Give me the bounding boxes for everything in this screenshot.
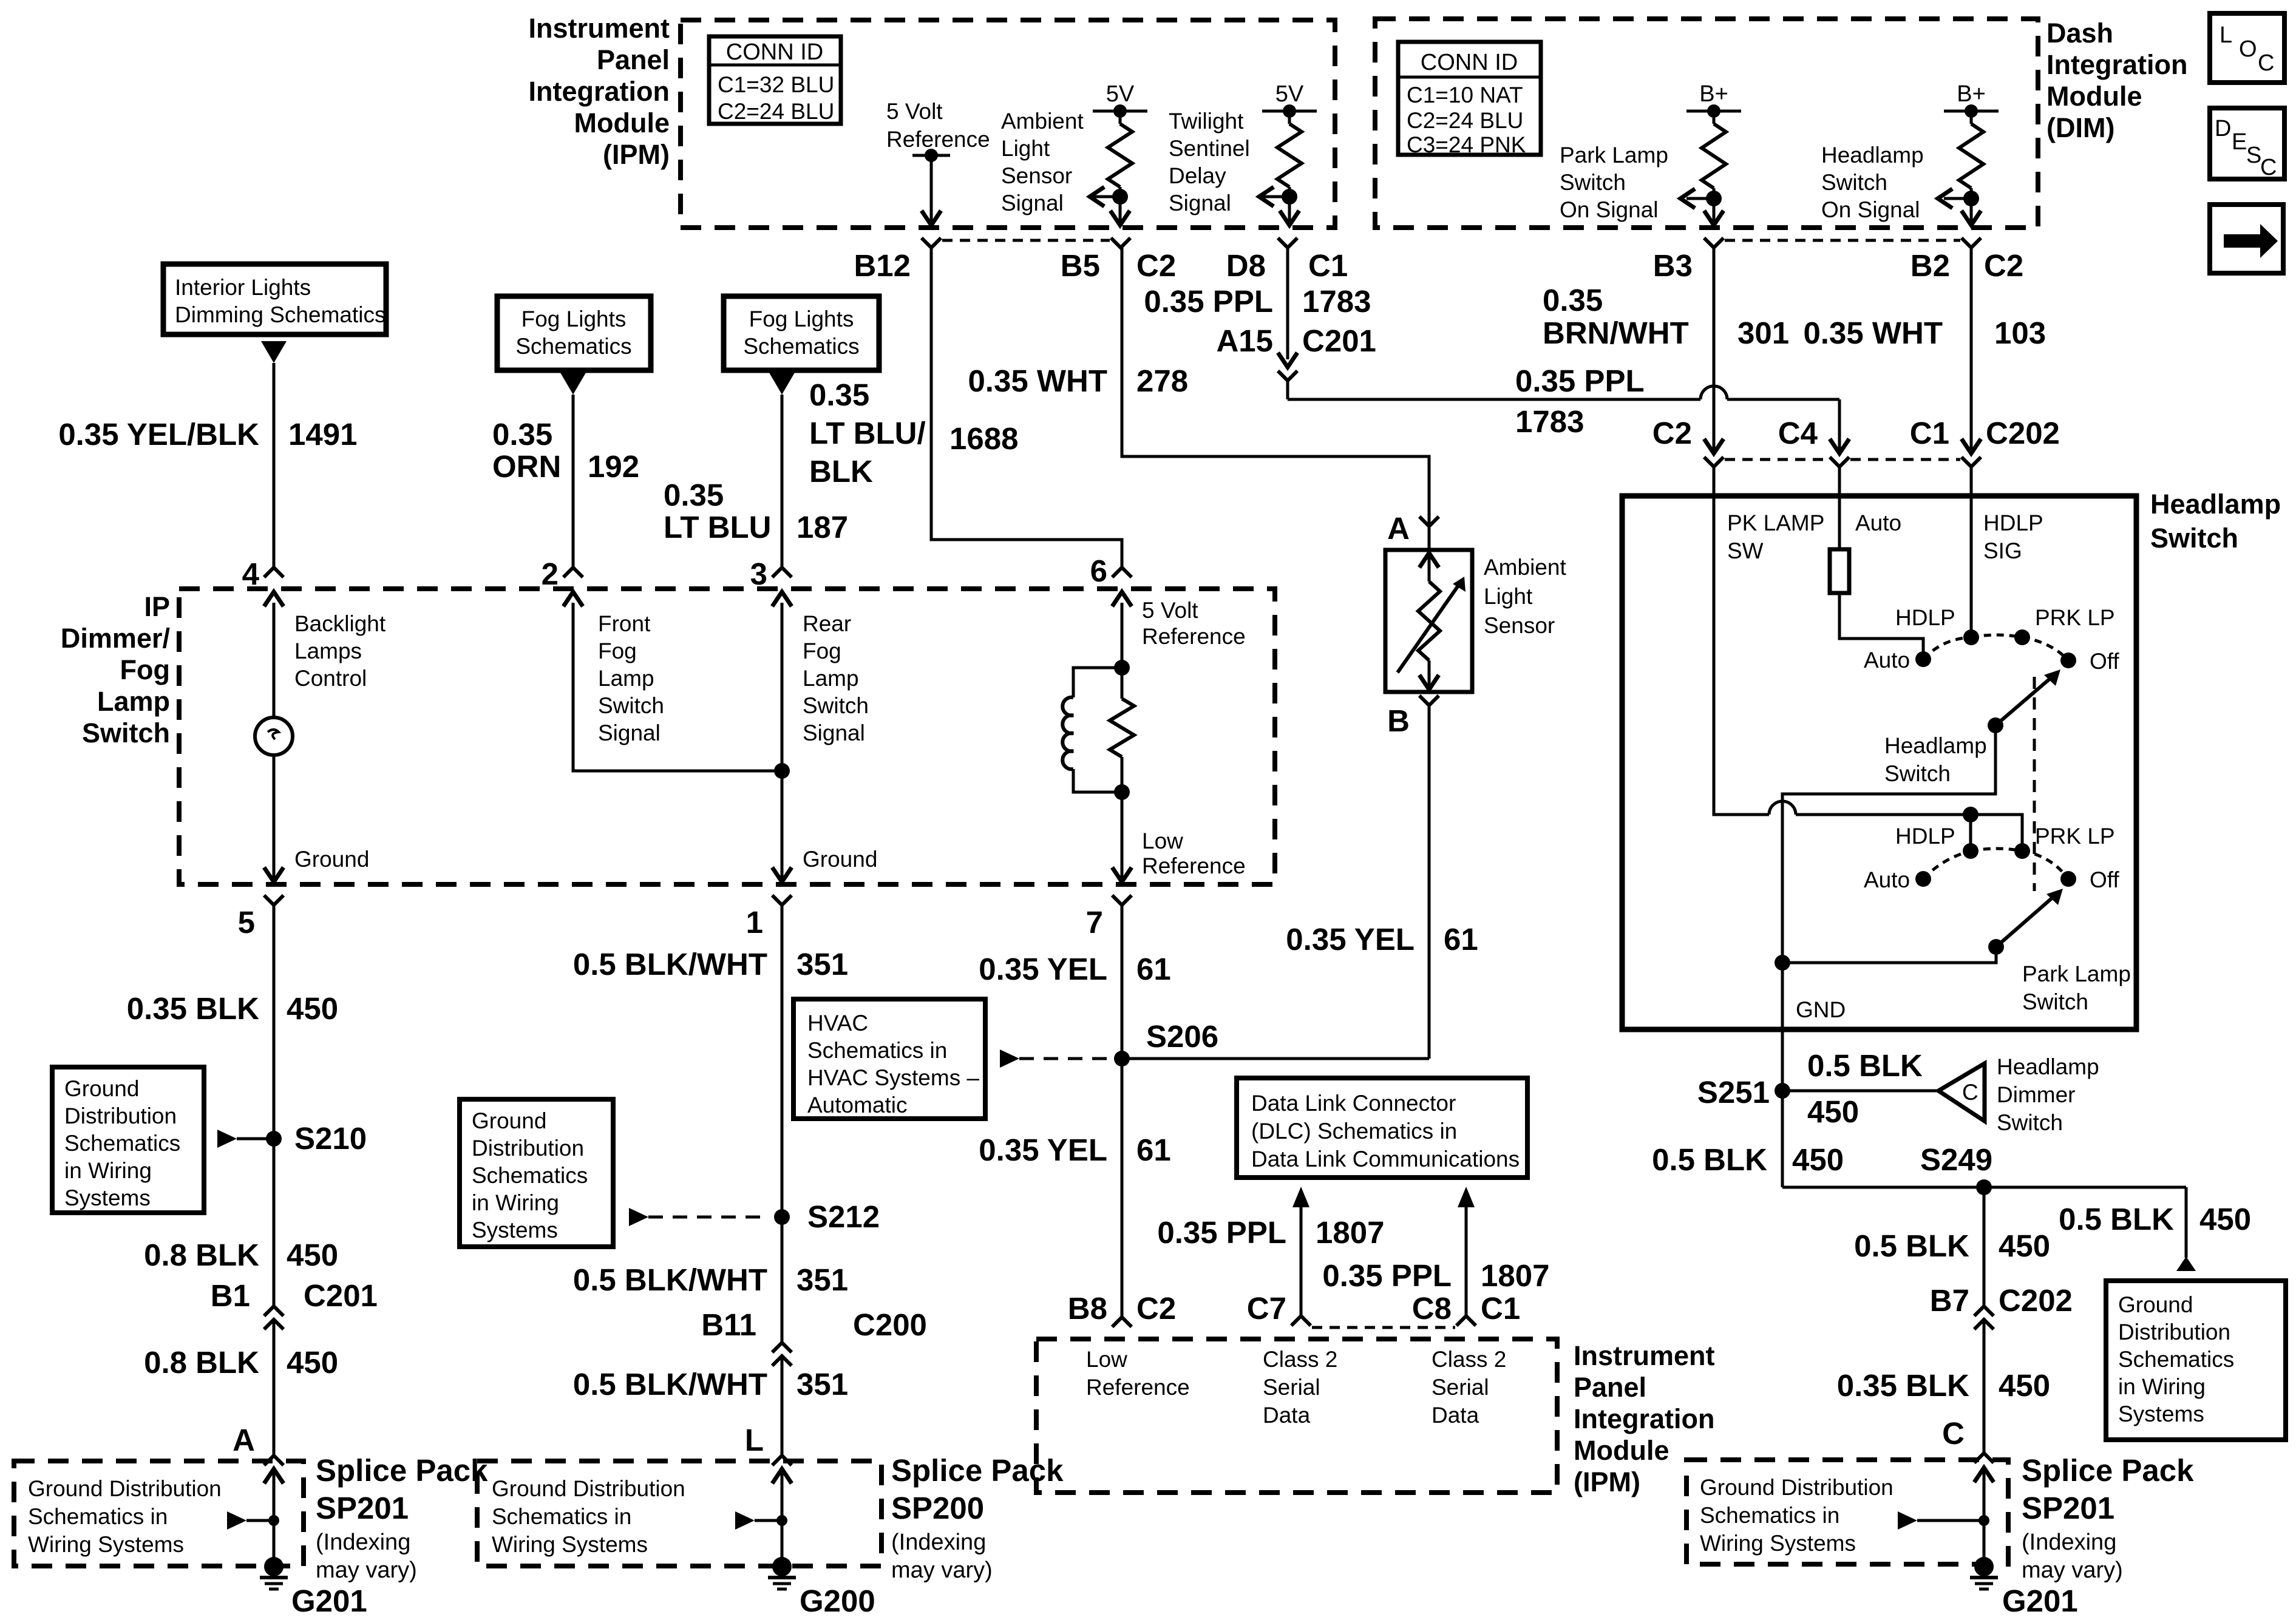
svg-text:1: 1 xyxy=(746,905,763,940)
svg-text:Integration: Integration xyxy=(2046,49,2188,80)
junction dot on strap xyxy=(1963,807,1978,822)
wire below C200 xyxy=(781,1356,784,1456)
reference box: Interior Lights Dimming Schematics xyxy=(163,264,386,334)
splice S210 xyxy=(266,1131,282,1147)
svg-text:HVAC: HVAC xyxy=(807,1011,868,1036)
svg-text:1491: 1491 xyxy=(288,417,357,452)
svg-text:0.35: 0.35 xyxy=(809,378,869,412)
svg-text:Lamps: Lamps xyxy=(294,639,362,663)
svg-text:G200: G200 xyxy=(800,1584,875,1617)
forward arrow box xyxy=(2210,205,2283,273)
svg-text:Distribution: Distribution xyxy=(472,1136,584,1161)
svg-text:HDLP: HDLP xyxy=(1983,510,2043,535)
wire: rear fog signal inside (pin 3 through) xyxy=(781,603,784,880)
svg-text:0.35 WHT: 0.35 WHT xyxy=(968,364,1107,398)
svg-text:Module: Module xyxy=(2046,81,2142,112)
svg-text:Schematics in: Schematics in xyxy=(28,1504,168,1529)
svg-text:0.35 PPL: 0.35 PPL xyxy=(1157,1215,1286,1250)
reference box: Ground Distribution Schematics in Wiring Systems (S210) xyxy=(52,1067,204,1213)
splice pack SP201 left dashed box xyxy=(14,1461,304,1566)
splice arrow inside SP201 left xyxy=(227,1511,246,1530)
svg-text:Data Link Connector: Data Link Connector xyxy=(1251,1091,1456,1116)
svg-text:Low: Low xyxy=(1142,829,1183,853)
connector chevrons below DIM (B3, B2) xyxy=(1704,238,1724,248)
svg-text:6: 6 xyxy=(1090,554,1107,588)
svg-text:Ground: Ground xyxy=(64,1076,139,1101)
svg-text:(DIM): (DIM) xyxy=(2046,112,2114,143)
svg-text:450: 450 xyxy=(287,1238,338,1272)
wire pin 6 internal xyxy=(1121,603,1124,699)
svg-text:Distribution: Distribution xyxy=(64,1103,177,1128)
svg-text:301: 301 xyxy=(1737,316,1789,350)
svg-text:0.35: 0.35 xyxy=(492,417,552,452)
wire: twilight delay 0.35 PPL 1783 upper (C1 to C201) xyxy=(1286,248,1289,359)
svg-text:Schematics: Schematics xyxy=(2118,1347,2234,1372)
svg-text:450: 450 xyxy=(1999,1368,2050,1403)
svg-text:0.5 BLK: 0.5 BLK xyxy=(1652,1142,1767,1177)
svg-text:5V: 5V xyxy=(1275,81,1304,107)
svg-text:HDLP: HDLP xyxy=(1895,824,1955,849)
inline connector C201 (A15) xyxy=(1278,353,1297,367)
svg-text:ORN: ORN xyxy=(492,449,561,484)
svg-text:0.8 BLK: 0.8 BLK xyxy=(144,1345,259,1380)
svg-text:Fog Lights: Fog Lights xyxy=(521,307,627,331)
svg-text:in Wiring: in Wiring xyxy=(64,1158,152,1183)
wire: ambient light sensor signal 0.35 WHT 278 (B5 to sensor A) xyxy=(1122,248,1429,526)
svg-text:Schematics in: Schematics in xyxy=(492,1504,631,1529)
svg-text:(DLC) Schematics in: (DLC) Schematics in xyxy=(1251,1119,1457,1144)
svg-text:192: 192 xyxy=(588,449,639,484)
svg-text:CONN ID: CONN ID xyxy=(726,39,823,65)
svg-text:C1=10 NAT: C1=10 NAT xyxy=(1407,83,1523,107)
svg-text:5 Volt: 5 Volt xyxy=(886,99,943,124)
svg-text:0.35: 0.35 xyxy=(1543,283,1603,317)
svg-text:450: 450 xyxy=(2199,1202,2251,1236)
svg-text:Schematics: Schematics xyxy=(743,334,859,359)
svg-text:Class 2: Class 2 xyxy=(1432,1347,1506,1372)
svg-text:0.35 PPL: 0.35 PPL xyxy=(1144,284,1273,319)
svg-text:On Signal: On Signal xyxy=(1821,197,1920,222)
connector mark C8 xyxy=(1456,1316,1476,1326)
svg-text:Wiring Systems: Wiring Systems xyxy=(28,1532,184,1557)
svg-text:LT BLU: LT BLU xyxy=(664,510,772,544)
svg-text:S206: S206 xyxy=(1146,1019,1218,1054)
svg-text:C2: C2 xyxy=(1652,416,1692,450)
svg-text:450: 450 xyxy=(287,1345,338,1380)
svg-text:G201: G201 xyxy=(2002,1584,2078,1617)
svg-text:0.35 PPL: 0.35 PPL xyxy=(1515,364,1645,398)
CONN ID table (IPM) xyxy=(709,36,841,124)
wire: 0.35 BLK 450 below C202 xyxy=(1983,1320,1986,1453)
svg-text:C201: C201 xyxy=(1302,324,1376,358)
svg-text:Sensor: Sensor xyxy=(1484,613,1555,638)
inline connector C200 (B11) xyxy=(772,1343,792,1352)
svg-text:Signal: Signal xyxy=(1001,191,1064,215)
wire: low reference 0.35 YEL 61 (pin 7 to B8) xyxy=(1121,905,1124,1317)
wire: 0.35 PPL 1783 jog to headlamp switch (hops over B3 wire) xyxy=(1286,381,1289,399)
splice pack SP200 dashed box xyxy=(477,1461,881,1566)
svg-text:in Wiring: in Wiring xyxy=(2118,1374,2206,1399)
svg-text:C2: C2 xyxy=(1984,248,2023,283)
svg-text:1807: 1807 xyxy=(1316,1215,1384,1250)
svg-text:C1: C1 xyxy=(1910,416,1949,450)
svg-text:351: 351 xyxy=(796,1263,848,1297)
inline connector C202 (B7) xyxy=(1974,1306,1994,1316)
svg-text:0.35 BLK: 0.35 BLK xyxy=(127,991,259,1026)
svg-text:Sensor: Sensor xyxy=(1001,163,1072,188)
svg-text:E: E xyxy=(2232,129,2247,155)
svg-text:S251: S251 xyxy=(1697,1075,1770,1110)
svg-text:A: A xyxy=(233,1423,255,1457)
svg-text:S210: S210 xyxy=(294,1121,367,1156)
svg-text:Ambient: Ambient xyxy=(1484,555,1566,580)
svg-text:Backlight: Backlight xyxy=(294,611,386,636)
svg-text:Integration: Integration xyxy=(529,76,670,107)
svg-text:0.5 BLK: 0.5 BLK xyxy=(2059,1202,2174,1236)
svg-text:Auto: Auto xyxy=(1864,867,1910,892)
exit arrow pin 7 xyxy=(1112,867,1132,882)
svg-text:Ground Distribution: Ground Distribution xyxy=(1700,1475,1894,1500)
entry arrow into SP201 left xyxy=(264,1469,284,1483)
svg-text:B7: B7 xyxy=(1930,1283,1969,1318)
svg-text:Reference: Reference xyxy=(1142,853,1246,878)
inductor: sensor load coil xyxy=(1073,668,1122,697)
wire: B7 ground 0.5 BLK 450 xyxy=(1983,1187,1986,1306)
svg-text:Ground: Ground xyxy=(803,847,877,872)
svg-text:Sentinel: Sentinel xyxy=(1169,136,1250,161)
svg-text:C1: C1 xyxy=(1481,1291,1520,1326)
svg-text:B11: B11 xyxy=(701,1307,756,1342)
wire: right branch to ground distribution xyxy=(2185,1187,2188,1258)
junction dot top of sensor load xyxy=(1114,660,1130,676)
wire: class 2 serial data 0.35 PPL 1807 (C7) xyxy=(1292,1187,1309,1207)
photoresistor: ambient light sensor element xyxy=(1419,553,1439,568)
svg-text:HDLP: HDLP xyxy=(1895,605,1955,630)
svg-text:B3: B3 xyxy=(1653,248,1693,283)
svg-text:Signal: Signal xyxy=(598,720,661,745)
exit arrow pin 5 xyxy=(264,867,284,882)
svg-text:Switch: Switch xyxy=(1997,1110,2063,1135)
svg-text:C4: C4 xyxy=(1778,416,1818,450)
dashed mechanical link xyxy=(2033,677,2036,891)
wire: park lamp switch signal 0.35 BRN/WHT 301 (B3 down) xyxy=(1713,248,1716,452)
svg-text:LT BLU/: LT BLU/ xyxy=(809,416,926,450)
svg-text:Ground: Ground xyxy=(294,847,369,872)
svg-text:0.35 YEL: 0.35 YEL xyxy=(979,952,1107,986)
svg-text:Module: Module xyxy=(574,107,670,138)
svg-text:61: 61 xyxy=(1444,922,1478,957)
svg-text:Systems: Systems xyxy=(472,1218,558,1242)
connector mark C7 xyxy=(1291,1316,1311,1326)
svg-text:(Indexing: (Indexing xyxy=(891,1530,986,1555)
wire: headlamp switch ground (GND out of box) xyxy=(1781,963,1784,1187)
svg-text:Auto: Auto xyxy=(1855,510,1901,535)
wire HDLP strap to PRK LP contact xyxy=(1971,815,2022,849)
svg-text:Splice Pack: Splice Pack xyxy=(316,1453,488,1488)
connector mark sensor B xyxy=(1419,696,1439,705)
svg-text:Instrument: Instrument xyxy=(1574,1340,1715,1371)
svg-text:278: 278 xyxy=(1136,364,1188,398)
resistor: sensor load xyxy=(1110,699,1134,757)
svg-text:Switch: Switch xyxy=(1560,170,1626,195)
svg-text:D8: D8 xyxy=(1226,248,1266,283)
svg-text:(IPM): (IPM) xyxy=(603,139,670,170)
svg-text:C: C xyxy=(2258,50,2274,76)
ground G201 right xyxy=(1974,1557,1994,1576)
svg-text:0.5 BLK/WHT: 0.5 BLK/WHT xyxy=(573,1367,767,1402)
svg-text:Headlamp: Headlamp xyxy=(1821,143,1924,168)
svg-text:Light: Light xyxy=(1484,584,1533,609)
svg-text:Fog: Fog xyxy=(120,654,170,685)
IPM module dashed box xyxy=(681,20,1335,228)
wire: class 2 serial data 0.35 PPL 1807 (C8) xyxy=(1458,1187,1475,1207)
dashed connector line C7-C8 xyxy=(1312,1326,1455,1329)
svg-text:B2: B2 xyxy=(1911,248,1950,283)
wire: S249 ground rail xyxy=(1782,1186,2186,1189)
svg-text:Ground Distribution: Ground Distribution xyxy=(28,1476,222,1501)
svg-text:Wiring Systems: Wiring Systems xyxy=(492,1532,648,1557)
svg-text:5V: 5V xyxy=(1106,81,1135,107)
wire S251 to dimmer switch xyxy=(1782,1090,1938,1093)
svg-text:C: C xyxy=(2260,155,2277,180)
svg-text:187: 187 xyxy=(796,510,848,544)
svg-text:103: 103 xyxy=(1994,316,2046,350)
svg-text:Integration: Integration xyxy=(1574,1403,1715,1434)
splice arrow inside SP200 xyxy=(735,1511,755,1530)
wire: HDLP SIG input (C1 into switch) xyxy=(1970,467,1973,635)
svg-text:S212: S212 xyxy=(807,1199,880,1234)
svg-text:Dimmer: Dimmer xyxy=(1997,1082,2075,1107)
svg-text:1807: 1807 xyxy=(1481,1258,1549,1293)
svg-text:C3=24 PNK: C3=24 PNK xyxy=(1407,132,1526,157)
svg-text:Delay: Delay xyxy=(1169,163,1226,188)
svg-text:may vary): may vary) xyxy=(316,1558,417,1583)
resistor block: auto lamp (C4 wire) xyxy=(1838,467,1841,549)
wire: headlamp switch signal 0.35 WHT 103 (B2 down) xyxy=(1970,248,1973,452)
svg-text:Module: Module xyxy=(1574,1435,1669,1466)
wire: front fog lamp switch signal 0.35 ORN 192 xyxy=(572,395,575,568)
DIM module dashed box xyxy=(1375,19,2038,228)
headlamp dimmer switch connector triangle xyxy=(1938,1063,1985,1121)
svg-text:(Indexing: (Indexing xyxy=(316,1530,410,1555)
reference box: Ground Distribution Schematics in Wiring Systems (S212) xyxy=(460,1099,613,1247)
svg-text:Switch: Switch xyxy=(1821,170,1887,195)
svg-text:C200: C200 xyxy=(853,1307,927,1342)
svg-text:450: 450 xyxy=(287,991,338,1026)
IP dimmer module dashed box xyxy=(179,589,1275,884)
svg-text:Ground: Ground xyxy=(472,1108,546,1133)
svg-text:On Signal: On Signal xyxy=(1560,197,1659,222)
svg-text:S249: S249 xyxy=(1920,1142,1992,1177)
svg-text:GND: GND xyxy=(1796,997,1846,1022)
svg-text:C7: C7 xyxy=(1247,1291,1286,1326)
svg-text:Off: Off xyxy=(2090,649,2119,674)
svg-text:450: 450 xyxy=(1807,1094,1859,1129)
svg-text:B12: B12 xyxy=(854,248,911,283)
connector mark at SP200 xyxy=(772,1456,792,1465)
svg-text:SW: SW xyxy=(1727,538,1764,563)
svg-text:1783: 1783 xyxy=(1302,284,1371,319)
svg-text:C2=24 BLU: C2=24 BLU xyxy=(1407,108,1523,133)
svg-text:Reference: Reference xyxy=(886,127,990,152)
wire: 5 volt reference 0.35 LT BLU/BLK 1688 (B12 to pin 6) xyxy=(931,248,1122,568)
svg-text:0.5 BLK: 0.5 BLK xyxy=(1807,1048,1923,1083)
arrow from front fog box xyxy=(560,373,586,395)
ambient light sensor box xyxy=(1385,550,1472,692)
reference box: Fog Lights Schematics (rear) xyxy=(724,296,879,370)
svg-text:5: 5 xyxy=(238,905,255,940)
svg-text:C2: C2 xyxy=(1136,1291,1176,1326)
lower park lamp switch blade xyxy=(1988,939,2004,955)
svg-text:1688: 1688 xyxy=(949,421,1018,456)
splice pack SP201 right dashed box xyxy=(1686,1460,2008,1564)
connector marks at pins 4 2 3 6 xyxy=(264,568,284,577)
svg-text:SP201: SP201 xyxy=(316,1491,409,1525)
entry arrow into SP200 xyxy=(772,1469,792,1483)
svg-text:Class 2: Class 2 xyxy=(1263,1347,1337,1372)
connector mark B8 xyxy=(1112,1317,1132,1327)
svg-text:Data Link Communications: Data Link Communications xyxy=(1251,1147,1520,1171)
ground G200 xyxy=(772,1557,792,1576)
svg-text:0.5 BLK: 0.5 BLK xyxy=(1854,1229,1969,1263)
svg-text:61: 61 xyxy=(1136,952,1171,986)
stub to lower HDLP contact xyxy=(1969,815,1972,849)
wire: rear fog lamp switch signal 0.35 LT BLU 187 xyxy=(781,395,784,568)
splice arrow to S212 (dashed) xyxy=(629,1208,648,1226)
svg-text:B8: B8 xyxy=(1068,1291,1107,1326)
svg-text:C201: C201 xyxy=(304,1278,378,1313)
wire below resistor xyxy=(1121,757,1124,880)
lower dashed contact arc xyxy=(1923,849,2068,879)
LOC reference box xyxy=(2210,13,2284,83)
svg-text:Wiring Systems: Wiring Systems xyxy=(1700,1531,1856,1556)
svg-text:B5: B5 xyxy=(1061,248,1100,283)
inline connector C201 (B1) xyxy=(264,1306,284,1316)
svg-text:450: 450 xyxy=(1999,1229,2050,1263)
svg-text:L: L xyxy=(745,1423,764,1457)
svg-text:may vary): may vary) xyxy=(2022,1558,2123,1583)
svg-text:Panel: Panel xyxy=(597,44,670,75)
reference box: Ground Distribution Schematics in Wiring Systems (right) xyxy=(2106,1281,2286,1440)
entry arrow into SP201 right xyxy=(1974,1468,1994,1482)
svg-text:Interior Lights: Interior Lights xyxy=(175,275,311,300)
svg-text:Serial: Serial xyxy=(1263,1375,1320,1400)
svg-text:Off: Off xyxy=(2090,867,2119,892)
ground G201 left xyxy=(264,1557,284,1576)
svg-text:Switch: Switch xyxy=(1884,761,1951,786)
svg-text:C1=32 BLU: C1=32 BLU xyxy=(718,72,834,97)
svg-text:Signal: Signal xyxy=(1169,191,1231,215)
wire from lower blade to GND rail xyxy=(1782,947,1996,963)
svg-text:C2: C2 xyxy=(1136,248,1176,283)
junction dot bottom of sensor load xyxy=(1114,784,1130,800)
wire: ground 0.35 BLK 450 (pin 5 down) xyxy=(273,905,276,1306)
connector mark sensor A xyxy=(1419,517,1439,526)
svg-text:Switch: Switch xyxy=(2022,989,2088,1014)
svg-text:0.35 YEL: 0.35 YEL xyxy=(979,1133,1107,1167)
svg-text:Front: Front xyxy=(598,611,651,636)
svg-text:Data: Data xyxy=(1263,1403,1311,1428)
connector mark at SP201 right xyxy=(1974,1453,1994,1463)
svg-text:61: 61 xyxy=(1136,1133,1171,1167)
svg-text:Schematics: Schematics xyxy=(472,1163,588,1188)
splice S251 xyxy=(1775,1083,1790,1099)
svg-text:Ground: Ground xyxy=(2118,1292,2193,1317)
svg-text:Dimmer/: Dimmer/ xyxy=(61,623,171,654)
svg-text:L: L xyxy=(2220,22,2232,48)
connector row C202 (C2 C4 C1) xyxy=(1704,439,1724,453)
wire: ground 0.5 BLK/WHT 351 (pin 1 down) xyxy=(781,905,784,1343)
connector chevrons below IPM (B12, B5, C1) xyxy=(922,238,941,248)
upper switch contacts Auto HDLP PRKLP Off xyxy=(1915,651,1931,667)
svg-text:Switch: Switch xyxy=(803,693,869,718)
svg-text:Park Lamp: Park Lamp xyxy=(1560,143,1668,168)
svg-text:0.35 WHT: 0.35 WHT xyxy=(1803,316,1943,350)
svg-text:B: B xyxy=(1387,703,1410,738)
exit arrow pin 1 xyxy=(772,867,792,882)
svg-text:Auto: Auto xyxy=(1864,648,1910,673)
svg-text:351: 351 xyxy=(796,1367,848,1402)
svg-text:Fog Lights: Fog Lights xyxy=(749,307,854,331)
arrow from rear fog box xyxy=(769,373,795,395)
svg-text:7: 7 xyxy=(1086,905,1103,940)
svg-text:450: 450 xyxy=(1792,1142,1844,1177)
svg-text:C202: C202 xyxy=(1999,1283,2073,1318)
svg-text:Headlamp: Headlamp xyxy=(2150,489,2281,520)
svg-text:D: D xyxy=(2215,116,2231,141)
reference box: Fog Lights Schematics (front) xyxy=(497,296,651,370)
wire: ground 0.8 BLK 450 (below C201) xyxy=(273,1320,276,1456)
splice S212 xyxy=(774,1209,790,1225)
svg-text:SIG: SIG xyxy=(1983,538,2022,563)
svg-text:IP: IP xyxy=(144,591,170,622)
svg-text:351: 351 xyxy=(796,947,848,981)
svg-text:4: 4 xyxy=(242,557,260,591)
svg-text:Control: Control xyxy=(294,666,367,691)
svg-text:Rear: Rear xyxy=(803,611,851,636)
svg-text:1783: 1783 xyxy=(1515,404,1584,439)
svg-text:C2=24 BLU: C2=24 BLU xyxy=(718,99,834,124)
splice arrow to S210 xyxy=(217,1130,237,1148)
svg-text:C1: C1 xyxy=(1308,248,1348,283)
svg-text:Instrument: Instrument xyxy=(528,13,670,44)
splice S206 xyxy=(1114,1051,1130,1066)
svg-text:SP201: SP201 xyxy=(2022,1491,2114,1525)
CONN ID table (DIM) xyxy=(1398,42,1541,155)
svg-text:Serial: Serial xyxy=(1432,1375,1489,1400)
svg-text:Park Lamp: Park Lamp xyxy=(2022,961,2131,986)
splice S249 dot xyxy=(1976,1179,1992,1195)
svg-text:Light: Light xyxy=(1001,136,1050,161)
svg-text:PRK LP: PRK LP xyxy=(2035,824,2115,849)
wire: front fog signal inside (pin 2 to junction) xyxy=(573,603,774,771)
svg-text:in Wiring: in Wiring xyxy=(472,1190,559,1215)
svg-text:Schematics in: Schematics in xyxy=(807,1038,947,1063)
svg-text:Reference: Reference xyxy=(1142,624,1246,649)
svg-text:Ground Distribution: Ground Distribution xyxy=(492,1476,685,1501)
junction dot pins 2/3 xyxy=(774,763,790,779)
svg-text:Fog: Fog xyxy=(598,639,637,663)
junction dot GND rail xyxy=(1775,955,1790,971)
svg-text:BLK: BLK xyxy=(809,454,873,489)
svg-text:Dash: Dash xyxy=(2046,18,2113,49)
svg-text:BRN/WHT: BRN/WHT xyxy=(1543,316,1689,350)
svg-text:0.5 BLK/WHT: 0.5 BLK/WHT xyxy=(573,1263,767,1297)
svg-text:Lamp: Lamp xyxy=(598,666,654,691)
svg-text:B1: B1 xyxy=(211,1278,250,1313)
svg-text:Lamp: Lamp xyxy=(97,686,170,717)
svg-text:B+: B+ xyxy=(1957,81,1986,107)
